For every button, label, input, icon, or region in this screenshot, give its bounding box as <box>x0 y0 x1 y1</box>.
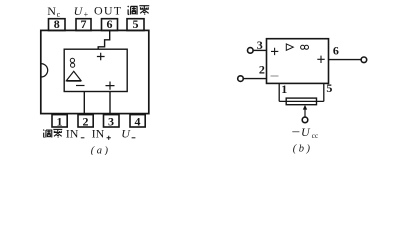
svg-text:U: U <box>301 125 311 139</box>
svg-text:IN: IN <box>66 126 79 140</box>
svg-text:3: 3 <box>257 38 263 52</box>
svg-text:U: U <box>74 4 84 18</box>
svg-text:6: 6 <box>333 44 339 58</box>
svg-text:cc: cc <box>312 131 319 140</box>
svg-text:3: 3 <box>108 114 114 128</box>
svg-text:5: 5 <box>326 81 332 95</box>
svg-text:5: 5 <box>133 17 139 31</box>
svg-text:OUT: OUT <box>94 4 122 18</box>
svg-text:4: 4 <box>135 114 141 128</box>
svg-text:2: 2 <box>83 114 89 128</box>
svg-text:IN: IN <box>92 126 105 140</box>
svg-text:1: 1 <box>57 114 63 128</box>
svg-text:7: 7 <box>81 17 87 31</box>
svg-text:N: N <box>47 4 56 18</box>
svg-text:(a): (a) <box>91 146 111 155</box>
svg-text:8: 8 <box>54 17 60 31</box>
svg-text:c: c <box>57 10 61 19</box>
svg-text:1: 1 <box>281 82 287 96</box>
svg-text:2: 2 <box>259 63 265 77</box>
svg-text:(b): (b) <box>293 144 313 155</box>
svg-text:6: 6 <box>107 17 113 31</box>
svg-text:+: + <box>84 10 89 19</box>
svg-text:U: U <box>121 126 131 140</box>
